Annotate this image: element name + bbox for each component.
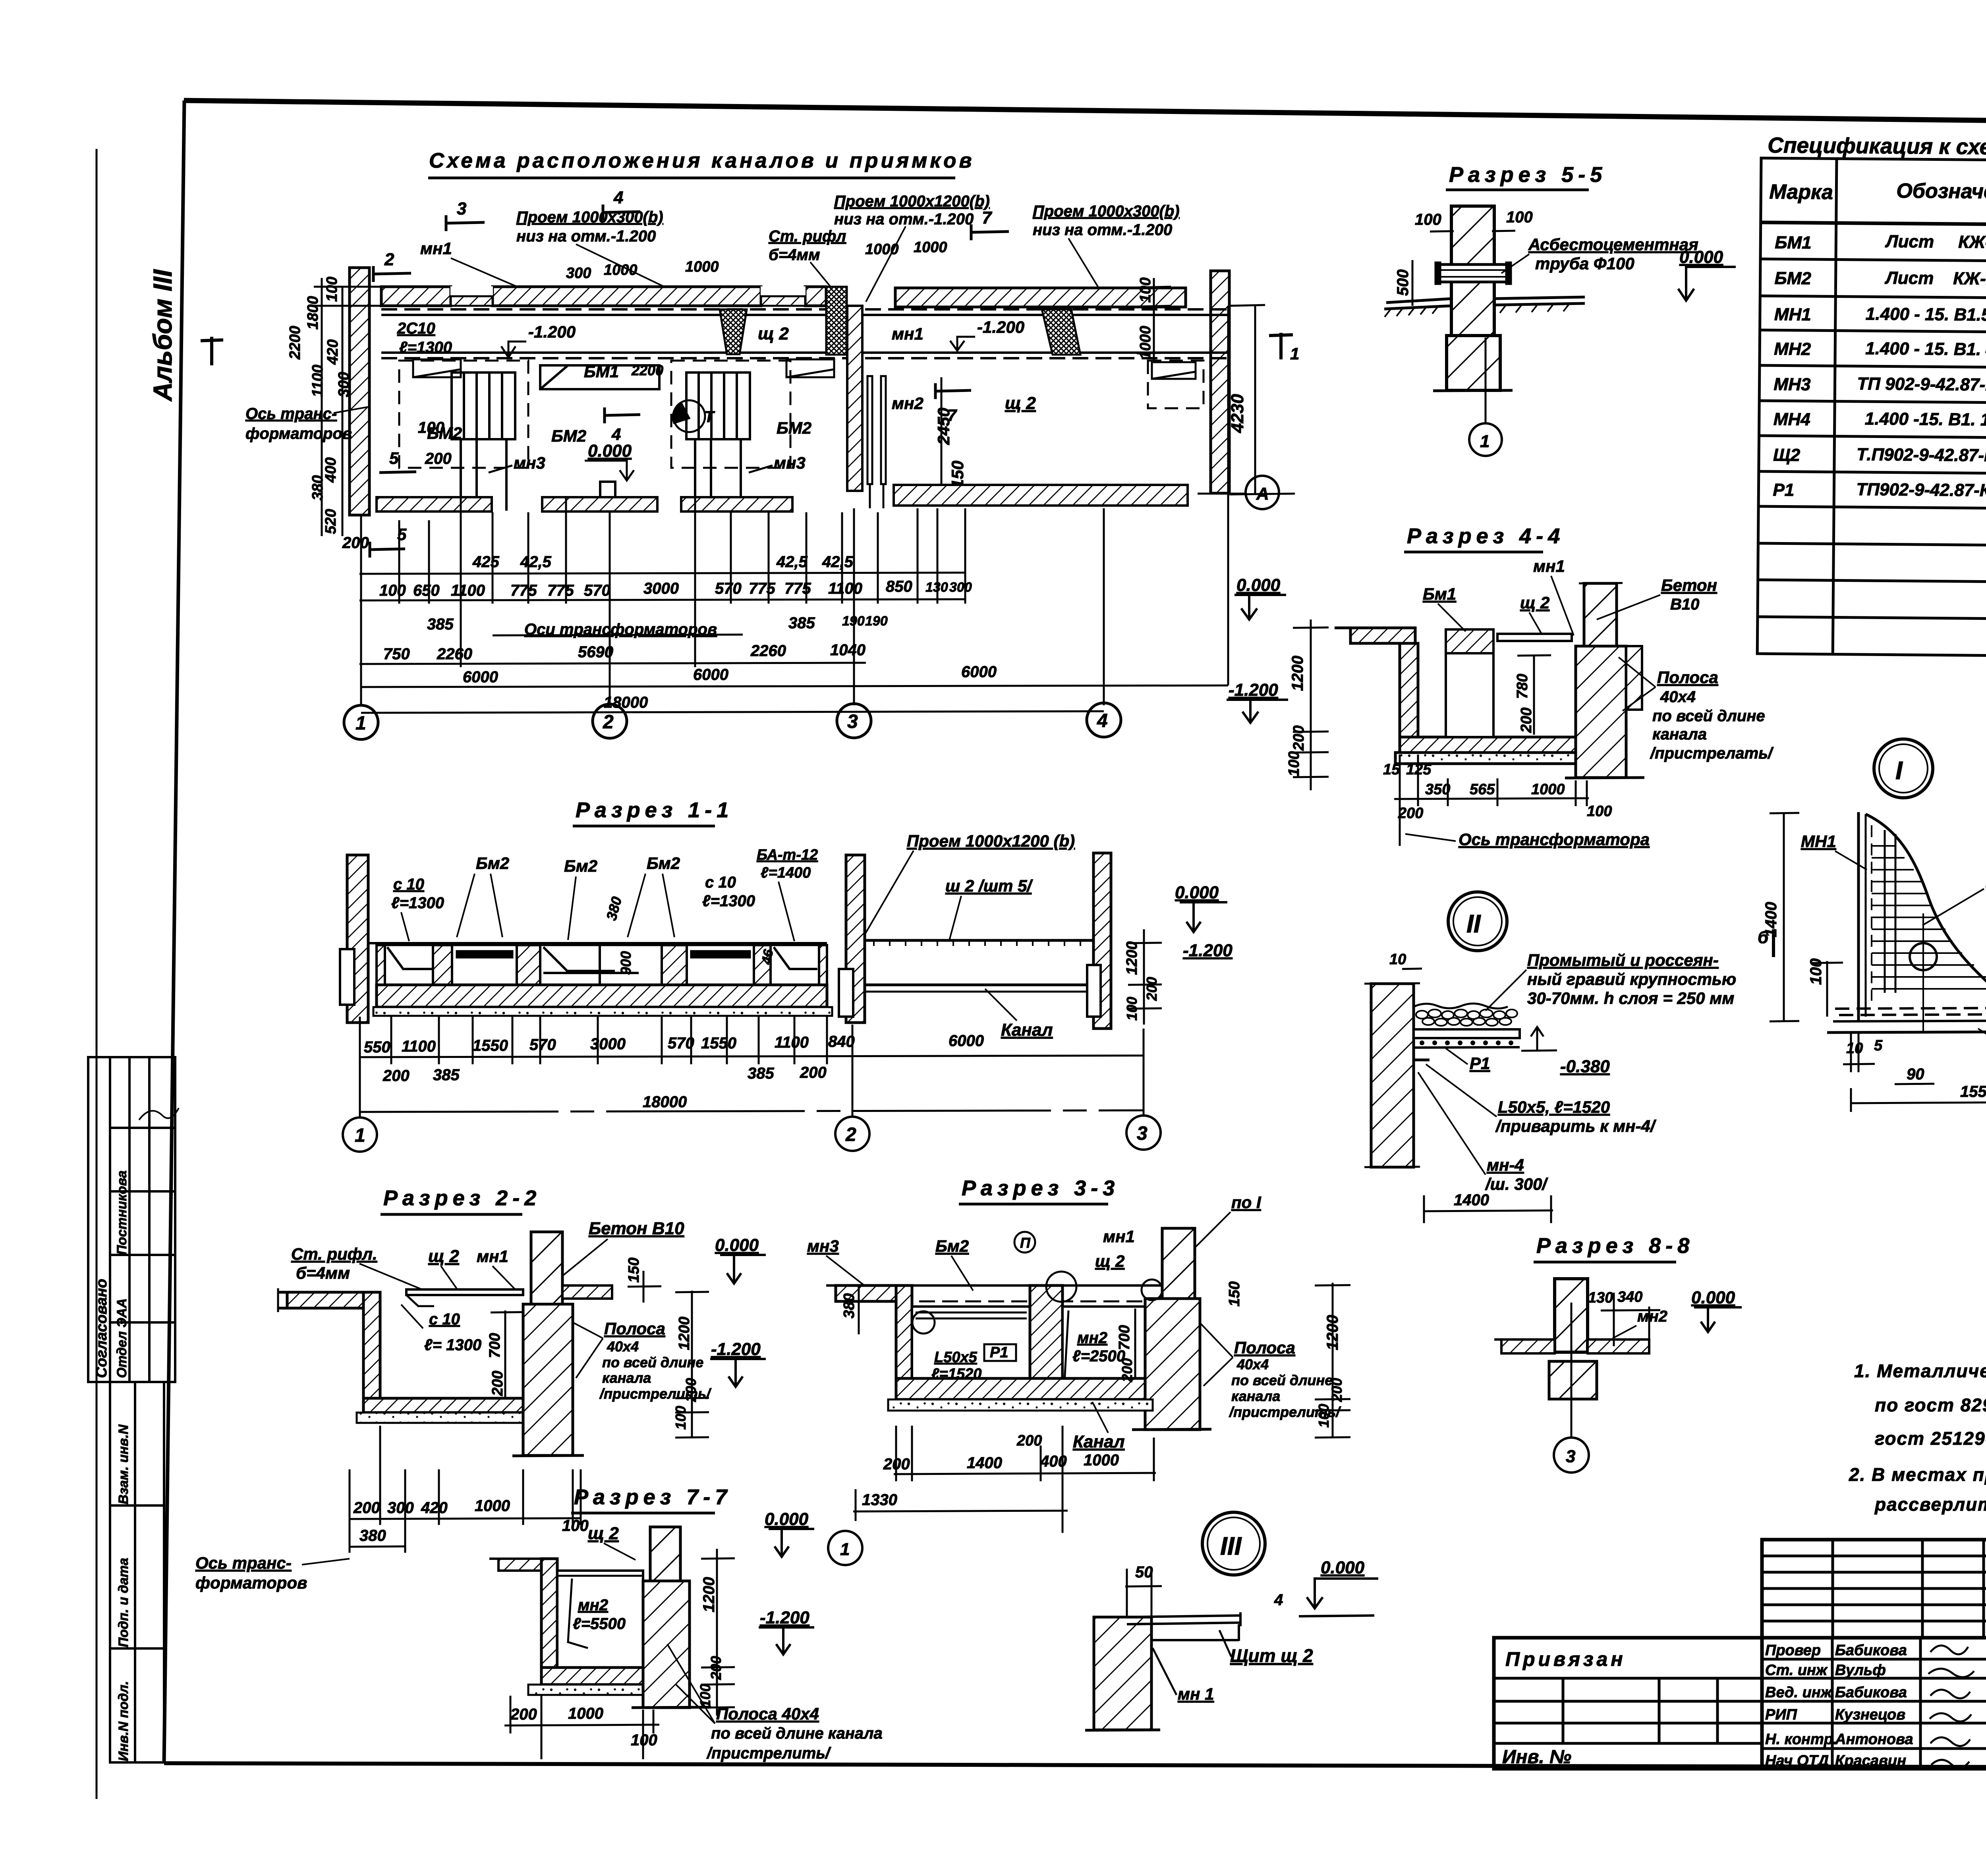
mid pier: [1030, 1285, 1063, 1398]
left dimension stack rotated numbers: [287, 277, 352, 534]
svg-text:190: 190: [865, 614, 888, 629]
svg-text:1200: 1200: [1124, 941, 1140, 975]
grid circles: [344, 703, 1121, 739]
svg-text:Н. контр.: Н. контр.: [1765, 1731, 1837, 1748]
right big block: [1576, 646, 1626, 778]
svg-text:Постникова: Постникова: [114, 1170, 129, 1255]
svg-text:Кузнецов: Кузнецов: [1835, 1706, 1905, 1723]
svg-text:1040: 1040: [830, 641, 865, 659]
svg-text:775: 775: [510, 582, 537, 599]
svg-text:-0.380: -0.380: [1560, 1057, 1610, 1076]
wall: [541, 1559, 557, 1678]
weld circles: [1046, 1272, 1076, 1302]
svg-text:6000: 6000: [693, 666, 728, 683]
svg-text:840: 840: [828, 1033, 855, 1050]
svg-text:мн-4: мн-4: [1487, 1156, 1524, 1174]
svg-text:МН1: МН1: [1774, 305, 1811, 324]
section mark 7 in right room: [935, 390, 971, 391]
svg-text:775: 775: [547, 582, 574, 599]
svg-text:1100: 1100: [309, 365, 326, 397]
svg-text:0.000: 0.000: [1175, 883, 1219, 902]
мн2 vertical bars in right room: [867, 376, 886, 508]
svg-text:650: 650: [413, 582, 440, 599]
svg-text:6000: 6000: [961, 663, 997, 681]
привязан box: [1494, 1638, 1762, 1769]
svg-text:-1.200: -1.200: [1183, 941, 1233, 960]
svg-text:щ 2: щ 2: [758, 324, 789, 344]
svg-text:1: 1: [1290, 344, 1299, 363]
svg-text:Взам. инв.N: Взам. инв.N: [116, 1424, 131, 1504]
svg-text:0.000: 0.000: [1321, 1558, 1365, 1577]
left slab: [498, 1559, 557, 1571]
section mark 4 mid: [605, 415, 640, 415]
bottom slab: [377, 985, 827, 1007]
svg-text:МН3: МН3: [1773, 374, 1810, 394]
gravel layer: [1414, 1004, 1517, 1026]
svg-text:ТП 902-9-42.87-КЖИ.36.0: ТП 902-9-42.87-КЖИ.36.0: [1857, 374, 1986, 395]
svg-text:БА-m-12: БА-m-12: [757, 847, 818, 863]
svg-text:-1.200: -1.200: [760, 1608, 809, 1627]
svg-text:100: 100: [1124, 997, 1140, 1021]
svg-text:мн1: мн1: [892, 324, 923, 343]
svg-text:Ось трансформатора: Ось трансформатора: [1459, 830, 1650, 849]
svg-text:Разрез 2-2: Разрез 2-2: [383, 1186, 541, 1210]
svg-text:40х4: 40х4: [1660, 688, 1696, 706]
svg-text:Бм2: Бм2: [564, 857, 597, 875]
svg-text:РИП: РИП: [1765, 1706, 1797, 1723]
svg-text:10: 10: [1846, 1040, 1863, 1057]
right canal: [865, 939, 1093, 942]
wall vertical: [1400, 643, 1418, 737]
revision grid upper left: [1762, 1540, 1986, 1638]
svg-text:А: А: [1256, 484, 1269, 504]
section mark 5 left: [379, 472, 416, 473]
svg-text:Канал: Канал: [1073, 1432, 1124, 1451]
leader + circle 3: [1571, 1303, 1573, 1438]
small corner shapes near top (мн1 pads): [413, 359, 1196, 379]
bottom dims: [353, 1497, 589, 1544]
right wall upper: [1584, 583, 1617, 646]
svg-text:Нач ОТД: Нач ОТД: [1765, 1752, 1829, 1769]
svg-text:низ на отм.-1.200: низ на отм.-1.200: [516, 228, 656, 245]
svg-text:385: 385: [748, 1065, 774, 1082]
svg-text:В10: В10: [1670, 596, 1699, 613]
svg-text:Разрез 7-7: Разрез 7-7: [574, 1485, 732, 1509]
svg-text:Канал: Канал: [1001, 1020, 1053, 1040]
svg-text:низ на отм.-1.200: низ на отм.-1.200: [1033, 221, 1172, 239]
svg-text:Ст. рифл.: Ст. рифл.: [291, 1245, 377, 1263]
svg-text:200: 200: [1016, 1432, 1042, 1449]
svg-text:385: 385: [788, 614, 815, 632]
signatures squiggles: [1928, 1646, 1974, 1768]
svg-text:1200: 1200: [1289, 656, 1306, 691]
svg-text:700: 700: [487, 1333, 503, 1358]
wall: [1371, 984, 1414, 1167]
svg-text:1000: 1000: [475, 1497, 510, 1515]
4230 dim right: [1254, 306, 1256, 494]
svg-text:Подп. и дата: Подп. и дата: [116, 1558, 131, 1647]
circle 1: [828, 1531, 862, 1565]
detail I circle on plan: [673, 400, 715, 432]
small block on axis: [600, 482, 615, 497]
svg-text:мн3: мн3: [514, 454, 545, 472]
section mark 3: [373, 188, 1009, 282]
svg-text:4: 4: [1097, 710, 1108, 731]
foundation block: [1447, 336, 1500, 390]
svg-text:-1.200: -1.200: [977, 318, 1024, 336]
svg-text:Полоса 40х4: Полоса 40х4: [716, 1704, 819, 1723]
svg-text:200: 200: [510, 1706, 537, 1723]
svg-text:200: 200: [1398, 805, 1423, 822]
svg-text:Проем 1000х300(b): Проем 1000х300(b): [1033, 203, 1180, 220]
svg-text:0.000: 0.000: [1679, 247, 1723, 267]
foundation: [1549, 1361, 1597, 1399]
svg-text:ный гравий крупностью: ный гравий крупностью: [1527, 970, 1736, 988]
svg-text:БМ1: БМ1: [584, 362, 619, 381]
svg-text:Бабикова: Бабикова: [1835, 1684, 1907, 1701]
svg-text:Щ2: Щ2: [1773, 445, 1801, 465]
svg-text:50: 50: [1135, 1563, 1153, 1581]
svg-text:Полоса: Полоса: [1657, 668, 1718, 687]
svg-text:Полоса: Полоса: [1234, 1338, 1295, 1357]
grating horizontal lines: [1872, 846, 1986, 989]
svg-text:340: 340: [1617, 1289, 1642, 1305]
svg-text:380: 380: [841, 1293, 858, 1318]
svg-text:200: 200: [342, 534, 369, 552]
svg-text:200: 200: [353, 1499, 380, 1517]
svg-text:канала: канала: [1231, 1388, 1280, 1404]
svg-text:520: 520: [323, 509, 339, 534]
top line across: [896, 1284, 1164, 1287]
svg-text:гост 25129-82.: гост 25129-82.: [1875, 1428, 1986, 1449]
dimension area below plan: [379, 553, 997, 711]
svg-text:100: 100: [1286, 751, 1302, 776]
svg-text:100: 100: [697, 1684, 713, 1708]
canal dashed strip top: [381, 309, 1228, 358]
svg-text:425: 425: [472, 553, 499, 571]
right wall: [1093, 853, 1111, 1029]
top slab left: [277, 1288, 363, 1312]
svg-text:Схема расположения каналов: Схема расположения каналов и приямков: [429, 149, 975, 172]
svg-text:150: 150: [626, 1258, 642, 1283]
svg-text:775: 775: [749, 580, 775, 597]
svg-text:1550: 1550: [701, 1035, 736, 1052]
svg-text:Инв.N подл.: Инв.N подл.: [116, 1681, 131, 1761]
svg-text:Согласовано: Согласовано: [93, 1279, 110, 1378]
svg-text:200: 200: [425, 450, 452, 467]
svg-text:18000: 18000: [643, 1093, 687, 1111]
right pier: [643, 1581, 690, 1708]
right vertical dims: [1128, 929, 1162, 1025]
svg-text:Вульф: Вульф: [1835, 1662, 1886, 1679]
svg-text:ℓ= 1300: ℓ= 1300: [424, 1336, 481, 1354]
corner angle: [1414, 1038, 1430, 1060]
notches: white top half, hatched bottom half: [450, 286, 493, 296]
top slab left: [836, 1285, 896, 1301]
svg-text:1100: 1100: [451, 582, 485, 599]
svg-text:МН2: МН2: [1774, 339, 1811, 359]
svg-text:с 10: с 10: [705, 874, 736, 891]
svg-text:мн2: мн2: [1077, 1329, 1107, 1347]
paper edge thin line left: [96, 149, 98, 1799]
beams cluster 2: [686, 372, 750, 439]
svg-text:850: 850: [886, 578, 912, 595]
svg-text:1550: 1550: [473, 1037, 508, 1054]
svg-text:по всей длине: по всей длине: [602, 1354, 703, 1370]
top slab left: [1350, 628, 1415, 643]
svg-text:мн1: мн1: [1103, 1227, 1135, 1246]
svg-text:380: 380: [309, 475, 326, 500]
svg-text:ℓ=1300: ℓ=1300: [391, 894, 444, 912]
svg-text:380: 380: [359, 1527, 386, 1544]
svg-text:Бм2: Бм2: [647, 854, 680, 872]
svg-text:1200: 1200: [676, 1316, 693, 1350]
svg-text:1400: 1400: [1454, 1191, 1489, 1209]
svg-text:L50х5: L50х5: [934, 1349, 978, 1366]
svg-text:мн3: мн3: [774, 454, 806, 472]
svg-text:щ 2: щ 2: [428, 1247, 459, 1266]
svg-text:Разрез 3-3: Разрез 3-3: [962, 1176, 1119, 1200]
svg-text:42,5: 42,5: [822, 553, 854, 571]
lower bar: [1151, 1624, 1239, 1641]
svg-text:2200: 2200: [631, 362, 663, 378]
svg-text:по всей длине: по всей длине: [1652, 707, 1765, 725]
svg-text:Разрез 4-4: Разрез 4-4: [1407, 524, 1565, 548]
БМ1 central beam: [540, 365, 659, 389]
svg-text:Р1: Р1: [1773, 480, 1794, 500]
svg-text:2450: 2450: [934, 408, 953, 445]
vertical dim 1200/200/100: [1293, 620, 1329, 790]
svg-text:2С10: 2С10: [397, 320, 435, 337]
svg-text:Разрез 5-5: Разрез 5-5: [1449, 163, 1607, 187]
shield crosshatch patches: [720, 287, 1080, 355]
svg-text:1100: 1100: [402, 1038, 436, 1055]
щ2 panel: [1497, 634, 1572, 641]
svg-text:БМ1: БМ1: [1775, 233, 1812, 253]
svg-text:1400: 1400: [967, 1454, 1002, 1472]
svg-text:570: 570: [715, 580, 742, 597]
svg-text:Альбом III: Альбом III: [148, 269, 177, 402]
svg-text:2200: 2200: [287, 326, 303, 360]
svg-text:щ 2: щ 2: [588, 1524, 619, 1543]
top wall band segments (hatched): [381, 286, 1186, 307]
svg-text:2: 2: [603, 712, 614, 733]
svg-text:мн1: мн1: [1533, 557, 1565, 575]
svg-text:0.000: 0.000: [1691, 1288, 1735, 1307]
main frame bottom: [164, 1763, 1986, 1768]
left wall: [347, 855, 368, 1023]
svg-text:300: 300: [566, 265, 591, 282]
svg-text:Антонова: Антонова: [1835, 1731, 1913, 1748]
section mark 4: [603, 212, 640, 212]
щ2 panel bar: [406, 1289, 523, 1295]
pit 1 with Р1: [912, 1307, 1030, 1392]
svg-text:с 10: с 10: [393, 876, 424, 893]
leader to circle 1: [1485, 338, 1487, 423]
svg-text:ℓ=5500: ℓ=5500: [573, 1615, 626, 1633]
svg-text:3000: 3000: [643, 580, 679, 597]
svg-text:Лист КЖ-11: Лист КЖ-11: [1885, 232, 1986, 252]
svg-text:3: 3: [457, 199, 466, 218]
svg-text:4: 4: [1274, 1591, 1283, 1609]
svg-text:мн1: мн1: [420, 239, 452, 258]
svg-text:БМ2: БМ2: [777, 419, 811, 437]
svg-text:II: II: [1466, 909, 1481, 938]
svg-text:1: 1: [355, 1125, 365, 1146]
svg-text:200: 200: [1144, 977, 1160, 1001]
svg-text:мн2: мн2: [892, 394, 923, 413]
pier block: [1094, 1617, 1151, 1730]
bottom slab: [363, 1398, 523, 1413]
svg-text:570: 570: [584, 582, 610, 599]
middle wall between rooms: [847, 306, 862, 491]
svg-text:низ на отм.-1.200: низ на отм.-1.200: [834, 210, 974, 228]
pit 2: [1063, 1307, 1145, 1392]
vertical wall: [363, 1292, 380, 1413]
svg-text:ℓ=1300: ℓ=1300: [702, 892, 755, 910]
left room beams cluster 1: [452, 372, 750, 511]
bottom pads (hatched): [377, 485, 1188, 511]
svg-text:100: 100: [1137, 278, 1154, 303]
bottom slab: [541, 1668, 643, 1685]
pit: [557, 1571, 643, 1668]
svg-text:/пристрелить/: /пристрелить/: [706, 1745, 831, 1762]
svg-text:Разрез 1-1: Разрез 1-1: [576, 798, 733, 822]
svg-text:200: 200: [800, 1064, 827, 1081]
svg-text:П: П: [1020, 1235, 1031, 1251]
svg-text:Бм2: Бм2: [476, 854, 509, 872]
svg-text:щ 2: щ 2: [1520, 593, 1549, 612]
svg-text:мн 1: мн 1: [1178, 1685, 1214, 1703]
pit inner elements: [385, 945, 819, 985]
wall column hatched: [1451, 206, 1494, 390]
svg-text:6000: 6000: [463, 668, 498, 686]
svg-text:420: 420: [421, 1499, 448, 1517]
svg-text:по гост 8292-85 за 2 раза по г: по гост 8292-85 за 2 раза по грунтовке Г…: [1875, 1395, 1986, 1415]
svg-text:ТП902-9-42.87-КЖИ . 35.0: ТП902-9-42.87-КЖИ . 35.0: [1856, 480, 1986, 501]
svg-text:мн2: мн2: [1637, 1308, 1667, 1325]
main frame left: [164, 100, 184, 1763]
svg-text:570: 570: [529, 1036, 556, 1054]
svg-text:4230: 4230: [1228, 394, 1247, 433]
svg-text:1200: 1200: [700, 1577, 718, 1612]
svg-text:ш 2 /шт 5/: ш 2 /шт 5/: [945, 876, 1033, 895]
svg-text:Бм1: Бм1: [1423, 585, 1456, 603]
section mark T1 left: [201, 337, 223, 365]
svg-text:Разрез 8-8: Разрез 8-8: [1536, 1234, 1694, 1258]
svg-text:Вед. инж: Вед. инж: [1765, 1684, 1833, 1701]
svg-text:Бетон: Бетон: [1661, 576, 1717, 594]
svg-text:150: 150: [1226, 1282, 1243, 1307]
grate bar: [1414, 1029, 1520, 1038]
svg-text:2: 2: [845, 1124, 856, 1145]
svg-text:по всей длине канала: по всей длине канала: [711, 1725, 883, 1742]
svg-text:100: 100: [1415, 211, 1441, 228]
svg-text:1.400 -15. В1. 120-02: 1.400 -15. В1. 120-02: [1865, 409, 1986, 430]
svg-text:1. Металлические изделия окра: 1. Металлические изделия окрасить маслян…: [1854, 1361, 1986, 1381]
main shape: [1858, 812, 1986, 1021]
svg-text:1000: 1000: [1531, 781, 1565, 798]
svg-text:/ш. 300/: /ш. 300/: [1485, 1175, 1548, 1193]
svg-text:90: 90: [1907, 1065, 1924, 1083]
svg-text:1: 1: [840, 1540, 850, 1559]
svg-text:Обозначение: Обозначение: [1896, 179, 1986, 204]
svg-text:б=4мм: б=4мм: [296, 1264, 350, 1282]
top dim 100 100: [1430, 207, 1515, 238]
svg-text:750: 750: [383, 645, 410, 663]
svg-text:БМ2: БМ2: [551, 427, 586, 445]
svg-text:1: 1: [1480, 432, 1489, 451]
bottom slab: [896, 1378, 1145, 1399]
svg-text:Ось транс-: Ось транс-: [195, 1554, 292, 1572]
svg-text:1000: 1000: [1084, 1451, 1119, 1469]
svg-text:10: 10: [1389, 951, 1406, 968]
svg-text:Щит щ 2: Щит щ 2: [1230, 1645, 1313, 1666]
left pier: [896, 1285, 912, 1398]
svg-text:форматоров: форматоров: [195, 1573, 307, 1592]
svg-text:форматоров: форматоров: [245, 425, 352, 442]
svg-text:БМ2: БМ2: [1774, 268, 1811, 288]
svg-text:по I: по I: [1231, 1193, 1262, 1212]
svg-text:7: 7: [982, 208, 993, 228]
piers between pits: [377, 945, 827, 985]
left exterior pier: [350, 268, 369, 515]
svg-text:3: 3: [1566, 1447, 1575, 1466]
middle wall: [846, 855, 865, 1023]
svg-text:300: 300: [949, 580, 972, 595]
svg-text:1000: 1000: [568, 1705, 603, 1722]
svg-text:1.400 - 15. В1. 430: 1.400 - 15. В1. 430: [1865, 339, 1986, 359]
svg-text:1.400 - 15. В1.540-09: 1.400 - 15. В1.540-09: [1866, 304, 1986, 325]
svg-text:2. В местах прохода полиэтил: 2. В местах прохода полиэтиленовых труб: [1849, 1464, 1986, 1485]
svg-text:3: 3: [847, 711, 858, 732]
БМ1 beam block: [1446, 629, 1493, 653]
svg-text:Проем 1000х300(b): Проем 1000х300(b): [516, 208, 663, 226]
svg-text:щ 2: щ 2: [1005, 394, 1036, 413]
svg-text:1: 1: [355, 713, 366, 734]
svg-text:2: 2: [384, 250, 394, 269]
dashed outline rects: [399, 361, 1204, 468]
svg-text:4: 4: [613, 188, 623, 207]
svg-text:Проем 1000х1200(b): Проем 1000х1200(b): [834, 193, 990, 210]
bottom band: [1827, 1008, 1986, 1033]
svg-text:0.000: 0.000: [1236, 575, 1281, 595]
svg-text:700: 700: [1116, 1325, 1133, 1350]
svg-text:200: 200: [383, 1067, 410, 1085]
svg-text:1000: 1000: [914, 239, 947, 256]
svg-text:Марка: Марка: [1769, 180, 1833, 204]
svg-text:100: 100: [672, 1406, 689, 1430]
svg-text:1550: 1550: [1960, 1083, 1986, 1100]
svg-text:550: 550: [364, 1038, 390, 1056]
svg-text:5690: 5690: [578, 643, 613, 661]
svg-text:L50х5, ℓ=1520: L50х5, ℓ=1520: [1498, 1098, 1610, 1116]
right top dims 100/1000: [1137, 278, 1154, 359]
svg-text:Отдел ЭАА: Отдел ЭАА: [114, 1298, 129, 1378]
dim lines: [359, 306, 1228, 713]
stamp group A (Согласовано): [88, 1057, 175, 1382]
svg-text:1800: 1800: [305, 296, 321, 330]
svg-text:Ось транс-: Ось транс-: [245, 405, 337, 423]
right pier: [523, 1304, 573, 1455]
svg-text:2260: 2260: [750, 642, 786, 660]
grid circles: [343, 1116, 1161, 1152]
svg-text:Полоса: Полоса: [604, 1319, 665, 1338]
svg-text:Лист КЖ-11: Лист КЖ-11: [1884, 268, 1986, 288]
svg-text:780: 780: [1514, 674, 1531, 699]
svg-text:350: 350: [1425, 781, 1450, 798]
svg-text:3000: 3000: [590, 1035, 626, 1053]
